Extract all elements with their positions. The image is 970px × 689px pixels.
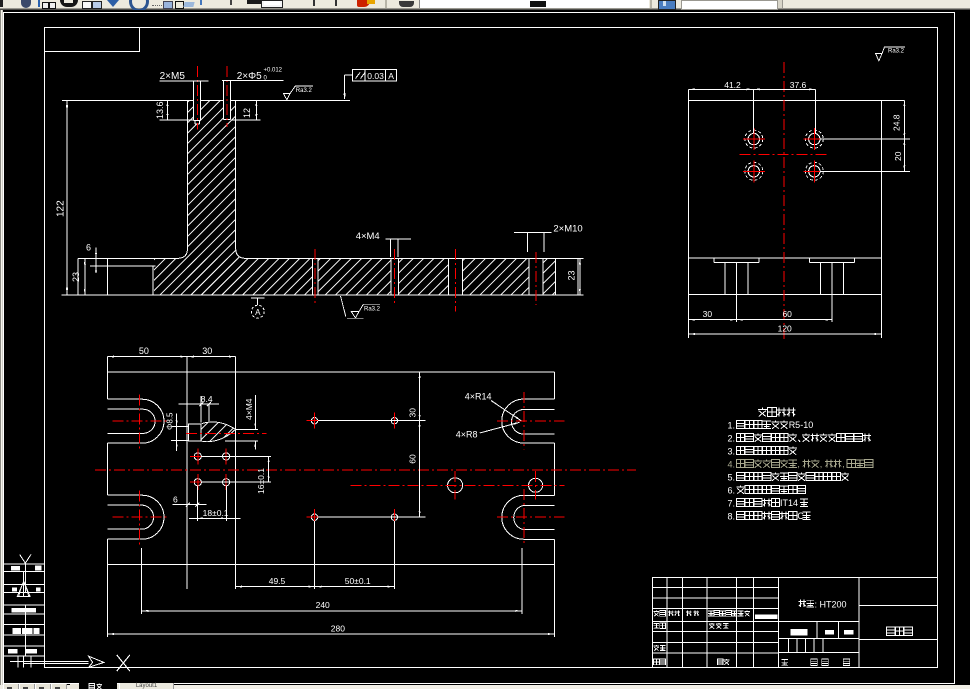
svg-text:6.: 6. [728,486,736,496]
toolbar combo boxes [419,0,649,8]
svg-text:2.: 2. [728,434,736,444]
dim 24.8 / 20 [820,138,910,140]
toolbar strip cut off at top [0,0,970,10]
phi8.5 lug (hatched) [189,424,202,441]
svg-text:6: 6 [86,243,91,253]
legend bottom boxes [17,656,19,668]
left margin legend table [4,563,45,565]
svg-text:4.: 4. [728,460,736,470]
svg-text:240: 240 [316,600,330,610]
svg-text:A: A [255,308,261,317]
M5 tapped hole top [193,81,195,121]
dim 8.4 [179,403,219,405]
technical requirements text [758,408,767,417]
U-slot upper-right [524,398,555,400]
svg-text:IT14: IT14 [780,498,798,508]
svg-text:8.: 8. [728,512,736,522]
svg-text:50: 50 [139,346,149,356]
pattern 4 holes middle [311,418,317,424]
svg-text:23: 23 [567,270,577,280]
model tab (active, dark) [70,684,173,689]
foot slots [713,258,715,263]
svg-text:30: 30 [407,408,417,418]
outline top/bottom [107,371,554,373]
svg-text:12: 12 [242,108,252,118]
svg-text:37.6: 37.6 [790,80,807,90]
TITLE BLOCK [653,578,938,668]
hole interiors masked black [194,100,201,121]
hatch fillet left [178,248,188,258]
svg-text:4×M4: 4×M4 [244,398,254,420]
right edge segments [554,372,556,399]
right column part name [858,578,860,668]
dim 18+-0.1 [189,517,241,519]
dim 41.2 / 37.6 [752,89,754,133]
outline [689,99,905,101]
material cell [799,600,807,608]
svg-text:18±0.1: 18±0.1 [203,508,229,518]
two center holes [448,478,463,493]
dim 6 left [95,247,97,272]
parallelism tolerance frame [352,70,396,81]
svg-text:16±0.1: 16±0.1 [256,468,266,494]
svg-text:30: 30 [202,346,212,356]
U-slot lower-right [524,494,555,496]
svg-text:6: 6 [173,495,178,505]
red centerlines base holes [314,249,316,304]
svg-text:60: 60 [407,454,417,464]
roughness Ra3.2 top [283,86,313,100]
svg-text:8.4: 8.4 [201,394,213,404]
step recess left [90,265,156,267]
title block left labels row [654,611,660,617]
svg-text:49.5: 49.5 [269,576,286,586]
svg-text:R5-10: R5-10 [789,420,814,430]
svg-text:Ra3.2: Ra3.2 [888,49,905,55]
dim 240 [141,548,143,614]
svg-text:41.2: 41.2 [724,80,741,90]
svg-text:24.8: 24.8 [892,114,902,131]
legend triangle symbol [17,572,30,597]
svg-text:,: , [797,459,800,469]
tab nav buttons [3,684,19,689]
dim 23 left [84,258,86,295]
svg-text:122: 122 [56,200,67,217]
svg-text:30: 30 [703,309,713,319]
svg-text:50±0.1: 50±0.1 [345,576,371,586]
hatch base segments [154,258,313,294]
svg-text:Ra3.2: Ra3.2 [364,307,381,313]
dim 16+-0.1 [268,456,270,482]
column edge lines [186,357,188,589]
svg-text:280: 280 [331,624,345,634]
phi5 hole top [223,81,225,120]
dim phi8.5 [172,426,189,428]
toolbar icon fragments [0,0,3,7]
U-slot upper-left [107,398,142,400]
hatch column [188,100,246,295]
svg-text:7.: 7. [728,499,736,509]
ext of outline for dims [106,565,108,637]
bottom layout-tab bar [0,685,970,689]
svg-text:+0.012: +0.012 [264,68,283,74]
svg-text:120: 120 [778,324,792,334]
U-slot lower-left [107,494,142,496]
window sunken left edge [0,10,2,686]
svg-text:20: 20 [893,151,903,161]
svg-text:Φ8.5: Φ8.5 [166,412,175,430]
FRONT SECTION VIEW [154,100,556,295]
front view outline [62,100,350,102]
title block row labels [654,623,660,628]
svg-text:60: 60 [782,309,792,319]
dims 50 / 30 top of plan [107,356,235,358]
svg-text:2×M5: 2×M5 [160,71,186,82]
roughness Ra3.2 bottom w/ leader [341,296,381,318]
svg-text:23: 23 [71,272,81,282]
left edge segments [106,357,108,400]
top-left grid box [45,28,140,52]
4 tapped holes [748,133,759,144]
svg-text:2×M10: 2×M10 [553,224,582,235]
dims 30/60/120 bottom [736,263,738,322]
datum A symbol [251,297,264,299]
main horizontal centerline [95,469,636,471]
svg-text:A: A [388,71,394,81]
svg-text:4×R8: 4×R8 [456,430,478,440]
Layout1 tab [119,683,174,689]
dim 6 plan [173,504,207,506]
svg-text:4×R14: 4×R14 [465,392,492,402]
legend small marks [11,566,20,571]
dim 12 [255,100,257,120]
svg-text:1.: 1. [728,421,736,431]
svg-text:: HT200: : HT200 [815,599,847,609]
dim 30/60 vertical [419,372,421,517]
dim 13.6 [167,100,169,120]
M4/M10 hole edges in base [311,258,313,295]
svg-text:0.03: 0.03 [367,71,384,81]
svg-text:4×M4: 4×M4 [356,231,380,242]
svg-text:,: , [842,459,845,469]
legend check symbol [20,555,31,572]
svg-text:,: , [820,459,823,469]
UCS icon [24,660,89,662]
red centerlines [783,62,785,341]
dim 280 [107,633,554,635]
svg-text:13.6: 13.6 [155,101,165,119]
dims 49.5 / 50+-0.1 [236,586,395,588]
dim 122 [66,100,68,295]
roughness Ra3.2 top right [876,47,906,61]
svg-text:5.: 5. [728,473,736,483]
dim 23 right [578,257,584,259]
M4 pattern 4 holes [194,453,201,460]
svg-text:Ra3.2: Ra3.2 [296,88,313,94]
middle column rows [778,638,858,640]
svg-text:3.: 3. [728,447,736,457]
